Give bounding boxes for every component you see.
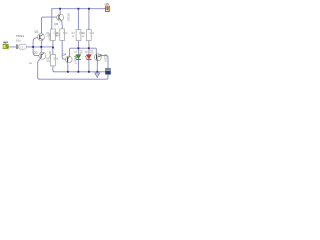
node dot A-right: [52, 47, 54, 49]
wire Q2 emitter to ground rail: [38, 59, 41, 80]
wire bottom rail: [39, 74, 108, 79]
wire LED2 top lead: [88, 48, 90, 54]
svg-text:Q5: Q5: [98, 53, 102, 57]
node dot rail-R3: [78, 8, 80, 10]
svg-text:Q4: Q4: [62, 53, 66, 57]
terminal INP: [3, 44, 8, 48]
node dot rail-R4: [88, 8, 90, 10]
node dot anode rail LED1: [78, 47, 80, 49]
wire base bracket Q1/Q2: [33, 38, 39, 56]
transistor Q2: [39, 52, 46, 59]
wire Q4 collector to anode rail: [69, 48, 96, 56]
wire Q2 collector: [40, 47, 42, 53]
transistor Q5: [94, 54, 101, 61]
node dot emitter rail LED2: [88, 71, 90, 73]
wire input node horizontal: [8, 46, 53, 48]
resistor R1: [51, 29, 56, 40]
wire R1 bottom to node A: [52, 40, 54, 47]
resistor R5: [51, 54, 56, 66]
node dot A-mid: [40, 46, 42, 48]
LED2 red: [85, 55, 91, 60]
wire R2 bottom to Q4 base: [62, 41, 65, 60]
buzzer BZ1: [106, 68, 111, 74]
wire Q4 emitter down: [66, 62, 69, 72]
wire LED1 top lead: [77, 48, 79, 54]
wire top rail: [52, 8, 105, 10]
svg-text:BC557: BC557: [104, 54, 108, 63]
wire LED1 bottom lead: [77, 60, 79, 72]
transistor Q1: [38, 34, 45, 41]
wire Q5 collector riser: [95, 48, 97, 54]
svg-text:INP: INP: [3, 41, 8, 45]
svg-text:+9V: +9V: [104, 2, 109, 6]
wire rail to R1 top: [51, 9, 53, 30]
node dot rail-Q3: [59, 8, 61, 10]
wire R3 bottom lead: [77, 41, 79, 49]
svg-text:10u: 10u: [16, 38, 21, 42]
wire emitter rail: [55, 71, 106, 73]
transistor Q3: [57, 14, 64, 21]
capacitor C1: [16, 44, 26, 49]
wire Q1 collector to Q3 base: [42, 17, 57, 33]
node dot anode rail LED2: [88, 47, 90, 49]
svg-text:Q1: Q1: [35, 29, 39, 33]
wire LED2 bottom lead: [88, 60, 90, 72]
wire node A to R5 top: [52, 47, 54, 54]
wire Q3 collector to R2 top: [60, 21, 63, 29]
LED1 green: [75, 55, 81, 60]
wire R3 top lead: [77, 9, 79, 30]
node dot emitter rail LED1: [78, 71, 80, 73]
resistor R3: [76, 30, 81, 41]
wire R4 bottom lead: [88, 41, 90, 49]
wire R5 bottom to emitter rail: [53, 66, 55, 72]
node dot A-left: [32, 46, 34, 48]
transistor Q4: [66, 56, 73, 63]
resistor R4: [86, 30, 91, 41]
wire Q1 emitter down: [41, 40, 42, 47]
wire Q5 base to buzzer: [101, 56, 108, 69]
power terminal +9V: [105, 6, 109, 12]
svg-text:Q3: Q3: [54, 22, 58, 26]
svg-text:BC557: BC557: [66, 13, 70, 22]
wire Q3 emitter stub: [59, 9, 61, 14]
svg-text:4k7: 4k7: [56, 35, 61, 38]
svg-text:TCS1: TCS1: [16, 34, 24, 38]
node dot emitter rail Q5/ground: [96, 71, 98, 73]
ground symbol: [95, 72, 100, 78]
svg-text:Q2: Q2: [34, 51, 38, 55]
wire Q5 emitter down: [96, 61, 98, 72]
wire R4 top lead: [88, 9, 90, 30]
node dot emitter rail Q4: [67, 71, 69, 73]
resistor R2: [60, 29, 65, 41]
